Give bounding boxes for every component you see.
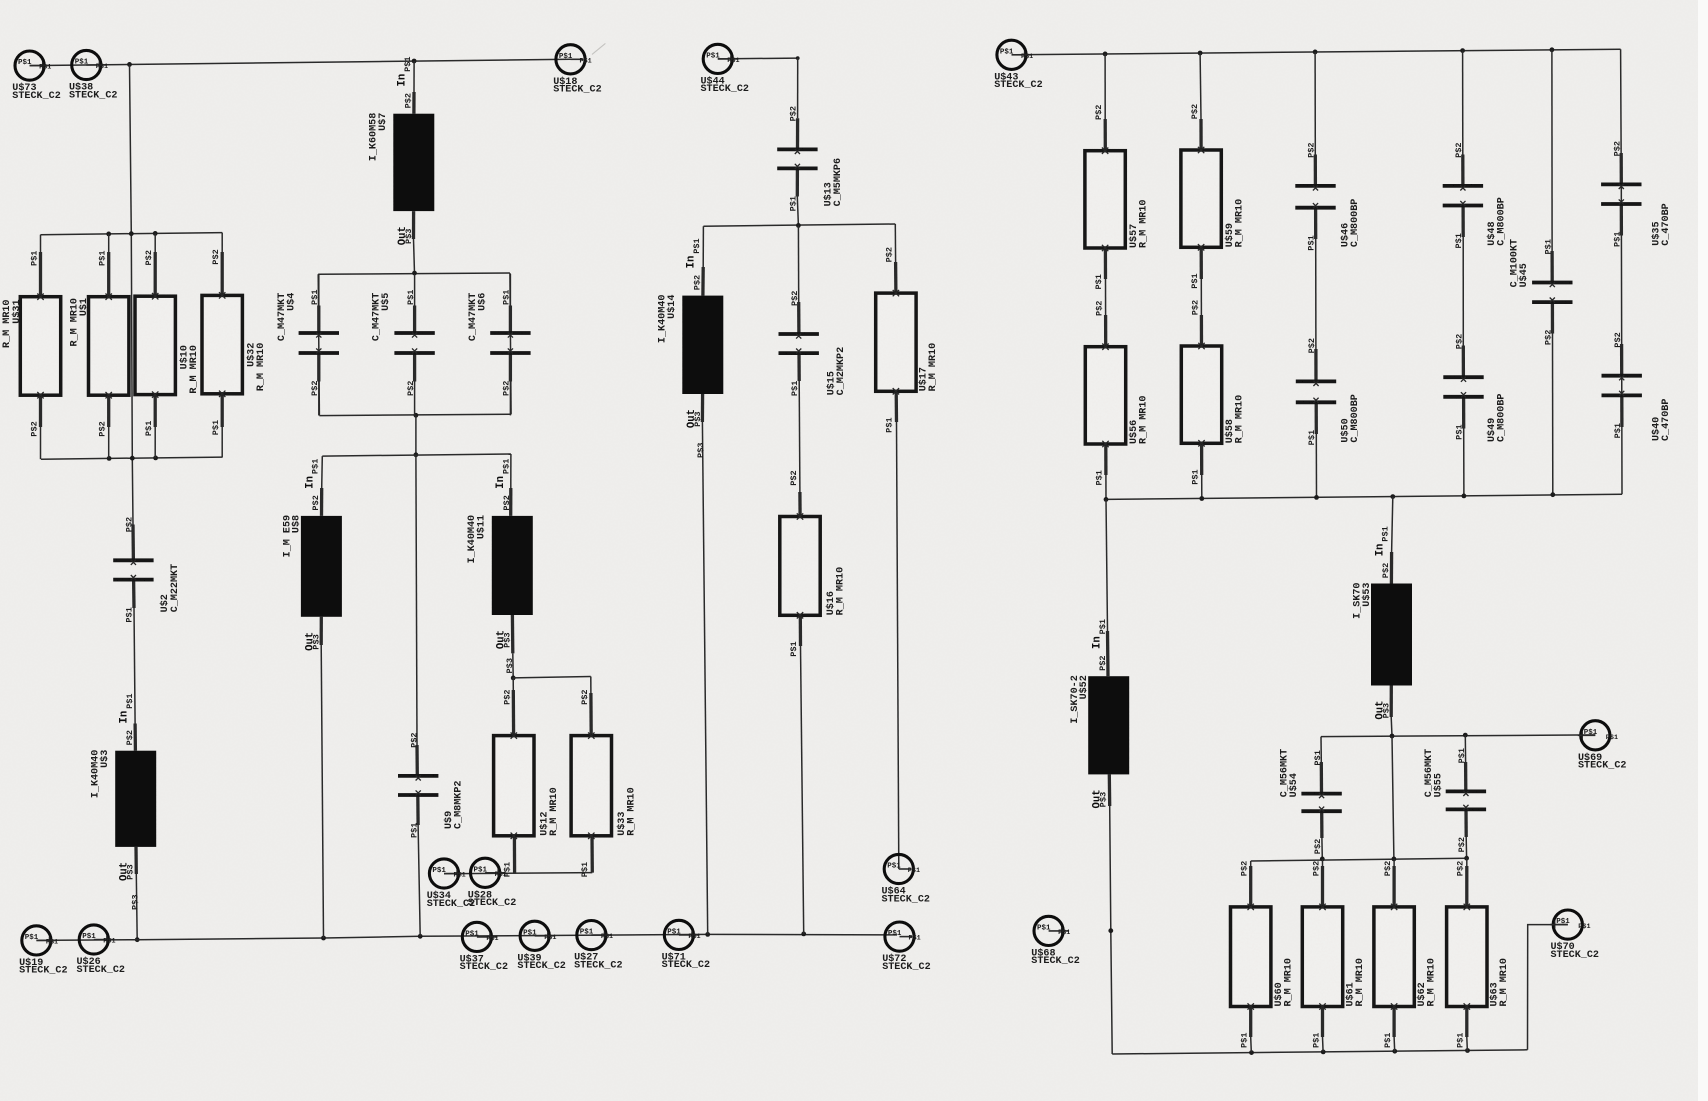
inductor U$7 (393, 114, 434, 211)
wire: U$2 to U$3 In (134, 608, 135, 724)
wire: resistor bottom lead (154, 395, 157, 427)
connector U$28 STECK_C2 (471, 858, 500, 887)
junction bottom rail/column (130, 456, 135, 461)
junction U$57 tap (1103, 52, 1108, 57)
junction rail/R U$1 (106, 232, 111, 237)
capacitor U$40 (1602, 374, 1642, 378)
wire: U$53 Out to lower rail (1390, 717, 1393, 736)
connector U$72 STECK_C2 (885, 922, 914, 951)
capacitor U$54 (1301, 792, 1341, 796)
pin lead U$3 In (133, 724, 137, 751)
pin lead U$17 bottom (895, 391, 899, 422)
capacitor U$4 (299, 331, 339, 335)
junction U$68 stub (1108, 928, 1113, 933)
cap trio bottom rail (319, 414, 511, 415)
pin lead U$8 Out (320, 617, 323, 645)
junction U$53/lower rail (1390, 734, 1395, 739)
wire: U$57/U$56 chain (1104, 54, 1106, 119)
inductor U$53 (1371, 584, 1412, 686)
wire: U$52 Out down (1110, 806, 1113, 1054)
junction rail/column (129, 231, 134, 236)
cap trio top rail (318, 273, 510, 274)
junction U$11 split (511, 676, 516, 681)
wire: U$7 In tap from top net (412, 59, 417, 64)
wire: U$8 Out down to bottom net (321, 645, 323, 938)
wire: rail to U$11 In (510, 454, 512, 488)
pin lead U$52 Out (1108, 774, 1112, 806)
resistor U$59 (1181, 150, 1221, 247)
connector U$70 STECK_C2 (1553, 910, 1582, 939)
pin lead U$7 Out (412, 211, 415, 239)
connector U$38 STECK_C2 (72, 50, 101, 79)
junction rail/U$63 (1464, 856, 1469, 861)
capacitor U$50 (1296, 379, 1336, 383)
pin lead U$54 top (1320, 762, 1323, 794)
junction U$71 stub (705, 932, 710, 937)
pin lead U$33 bottom (590, 836, 594, 873)
pin lead U$17 top (894, 262, 898, 293)
wire: resistor bottom lead (221, 395, 224, 427)
wire: resistor bottom lead (39, 395, 42, 427)
scan edge strip (1698, 0, 1708, 1101)
junction U$46 tap (1313, 50, 1318, 55)
wire: left column vertical drop (130, 64, 134, 524)
wire: trio to middle rail (415, 415, 417, 455)
resistor U$31 (20, 297, 60, 396)
wire: lower-right rail to U$69 (1321, 735, 1595, 737)
pin lead U$54 bottom (1320, 811, 1324, 838)
connector U$27 STECK_C2 (577, 921, 606, 950)
wire: U$34-U$28-U$12-U$33 net (444, 873, 592, 874)
pin lead U$55 bottom (1464, 809, 1467, 837)
pin lead U$11 In (509, 488, 512, 516)
capacitor U$49 (1443, 375, 1483, 379)
resistor U$16 (780, 517, 820, 616)
inductor U$11 (492, 516, 533, 615)
inductor U$14 (682, 296, 723, 394)
connector U$39 STECK_C2 (520, 921, 549, 950)
pin lead U$53 Out (1390, 686, 1393, 718)
pin leads U$40 (1620, 344, 1623, 376)
wire: U$11 Out to split (512, 653, 514, 678)
wire: U$45 chain (1551, 50, 1553, 251)
cap trio left edge (318, 274, 319, 415)
wire: U$48/U$49 chain (1462, 51, 1464, 155)
pin lead U$52 In (1106, 631, 1110, 676)
wire: U$14 Out down to bottom net (702, 422, 707, 934)
wire: bottom-left long net (36, 934, 897, 940)
pin lead cap U$2 bottom (132, 579, 136, 608)
inductor U$52 (1088, 676, 1129, 774)
junction U$3 chain on bottom net (135, 937, 140, 942)
capacitor U$15 (779, 332, 819, 336)
resistor U$57 (1085, 151, 1125, 248)
pin lead U$9 bottom (416, 794, 420, 825)
corner dot (796, 56, 800, 60)
wire: resistor top lead (154, 233, 156, 252)
resistor U$33 (571, 736, 611, 836)
capacitor U$6 (490, 331, 530, 335)
wire: U$13 to middle rail (797, 197, 798, 226)
pin lead cap U$2 top (131, 525, 135, 563)
capacitor U$13 (777, 147, 817, 151)
wire: U$17 down to U$64 (897, 422, 899, 869)
wire: resistor top lead (40, 235, 42, 252)
capacitor U$46 (1295, 184, 1335, 188)
resistor U$12 (494, 736, 534, 836)
wire: U$16 down to bottom net (801, 646, 804, 934)
resistor U$58 (1181, 346, 1221, 443)
pin lead U$8 In (320, 488, 324, 516)
junction bottom rail/R U$1 (107, 456, 112, 461)
wire: U$59/U$58 chain (1199, 53, 1202, 119)
pin lead U$9 top (415, 745, 419, 776)
resistor U$63 (1447, 907, 1487, 1007)
pin lead U$12 top (512, 690, 516, 736)
connector U$71 STECK_C2 (664, 920, 693, 949)
wire: rail down to U$15 (797, 225, 799, 302)
connector U$19 STECK_C2 (22, 926, 51, 955)
wire: rail down to U$52 (1106, 499, 1108, 631)
pin leads U$35 (1620, 153, 1623, 184)
cap trio right edge (510, 273, 511, 414)
wire: rail to U$17 top (894, 224, 896, 262)
capacitor U$5 (394, 331, 434, 335)
junction R taps on bottom rail (1249, 1050, 1254, 1055)
connector U$26 STECK_C2 (79, 925, 108, 954)
wire: top-left net from U$73 through U$38 to U$18 (30, 59, 571, 65)
capacitor U$2 (113, 558, 153, 562)
connector U$73 STECK_C2 (15, 51, 44, 80)
wire: right edge down through U$35/U$40 (1621, 49, 1622, 494)
inductor U$3 (115, 751, 156, 847)
pin lead U$13 bottom (796, 168, 799, 196)
pin lead U$15 bottom (797, 353, 801, 381)
wire: resistor top lead (108, 234, 110, 252)
scan scratch artifact (592, 43, 605, 54)
wire: split to U$33 top (513, 677, 591, 678)
connector U$64 STECK_C2 (884, 854, 913, 883)
wire: rail to U$8 In (321, 456, 324, 488)
wire: resistor bank bottom rail (41, 457, 223, 459)
junction rail/U$62 (1392, 857, 1397, 862)
connector U$44 STECK_C2 (703, 44, 732, 73)
wire: U$53 link down to resistor rail (1392, 736, 1394, 859)
junction U$45 tap (1550, 47, 1555, 52)
pin lead U$13 top (796, 118, 799, 149)
connector U$43 STECK_C2 (997, 40, 1026, 69)
pin lead U$14 Out (701, 394, 704, 422)
capacitor U$45 (1532, 281, 1572, 285)
junction bottom rail/R U$10 (153, 456, 158, 461)
wire: U$15 to U$16 (798, 381, 801, 492)
pin lead U$14 In (701, 267, 705, 296)
capacitor U$55 (1446, 790, 1486, 794)
junction bottom rail center (414, 413, 419, 418)
junction rail/R U$10 (153, 231, 158, 236)
junction U$9 chain on bottom net (418, 934, 423, 939)
wire: resistor bank top rail (41, 233, 223, 235)
wire: bottom-right rail (1112, 1050, 1527, 1054)
wire: U$46/U$50 chain (1314, 52, 1316, 155)
connector U$18 STECK_C2 (556, 45, 585, 74)
pin leads cap trio (318, 274, 320, 306)
junction U$55/lower rail (1463, 733, 1468, 738)
resistor U$61 (1302, 907, 1342, 1007)
wire: corner down to U$13 (797, 58, 799, 118)
pin lead U$15 top (797, 302, 801, 334)
connector U$69 STECK_C2 (1581, 721, 1610, 750)
junction U$59 tap (1198, 51, 1203, 56)
wire: resistor bottom lead (107, 395, 110, 427)
wire: rail corner down to U$54 (1320, 737, 1322, 762)
capacitor U$48 (1443, 184, 1483, 188)
junction U$8 chain on bottom net (321, 936, 326, 941)
wire: resistor top lead (221, 233, 223, 252)
resistor U$62 (1374, 907, 1414, 1007)
pin lead U$33 top (589, 693, 593, 736)
wire: U$55 drop (1464, 735, 1466, 762)
pin leads bottom-right resistors (1250, 861, 1252, 866)
resistor U$1 (89, 297, 129, 396)
pin lead U$7 In (412, 92, 415, 114)
wire: cap-trio middle down to U$9 (416, 455, 417, 745)
wire: bottom-right resistor top rail (1251, 858, 1467, 861)
pin lead U$16 top (798, 492, 801, 517)
capacitor U$9 (398, 774, 438, 778)
resistor U$17 (876, 293, 916, 391)
junction top rail center (412, 271, 417, 276)
wire: rail down to U$53 (1392, 497, 1393, 552)
wire: split to U$12 top (512, 678, 514, 690)
wire: U$7 Out to cap-trio top rail (414, 239, 415, 273)
pin lead U$55 top (1464, 762, 1468, 791)
connector U$34 STECK_C2 (429, 859, 458, 888)
wire: U$70 stub and drop (1528, 925, 1568, 1050)
wire: top-right net from U$43 (1012, 49, 1621, 55)
junction rail/U$61 (1320, 857, 1325, 862)
inductor U$8 (301, 516, 342, 617)
junction at top-left column tap (127, 62, 132, 67)
wire: U$55 to resistor rail (1465, 837, 1467, 858)
capacitor U$35 (1601, 182, 1641, 186)
resistor U$60 (1231, 907, 1271, 1007)
pin lead U$16 bottom (799, 615, 803, 646)
connector U$68 STECK_C2 (1034, 916, 1063, 945)
resistor U$10 (135, 296, 175, 394)
wire: U$54 to resistor rail (1321, 838, 1323, 859)
pin lead U$11 Out (511, 615, 515, 653)
junction rail/U$13 chain (796, 223, 801, 228)
junction U$48 tap (1460, 48, 1465, 53)
pin lead U$53 In (1390, 552, 1393, 584)
resistor U$56 (1085, 347, 1125, 444)
junction U$16 chain on bottom net (801, 932, 806, 937)
resistor U$32 (202, 295, 242, 393)
pin lead U$3 Out (134, 847, 138, 874)
wire: middle rail U$8-U$11 (322, 454, 511, 456)
junction middle rail (414, 452, 419, 457)
middle column rail (703, 224, 895, 226)
wire: U$9 to bottom net (418, 825, 420, 936)
connector U$37 STECK_C2 (462, 922, 491, 951)
pin lead U$12 bottom (513, 836, 516, 874)
wire: right mid rail (1106, 494, 1622, 499)
wire: U$44 stub to corner (718, 57, 798, 60)
wire: U$3 Out down to bottom net (135, 874, 138, 940)
wire: rail to U$14 In (702, 226, 704, 267)
